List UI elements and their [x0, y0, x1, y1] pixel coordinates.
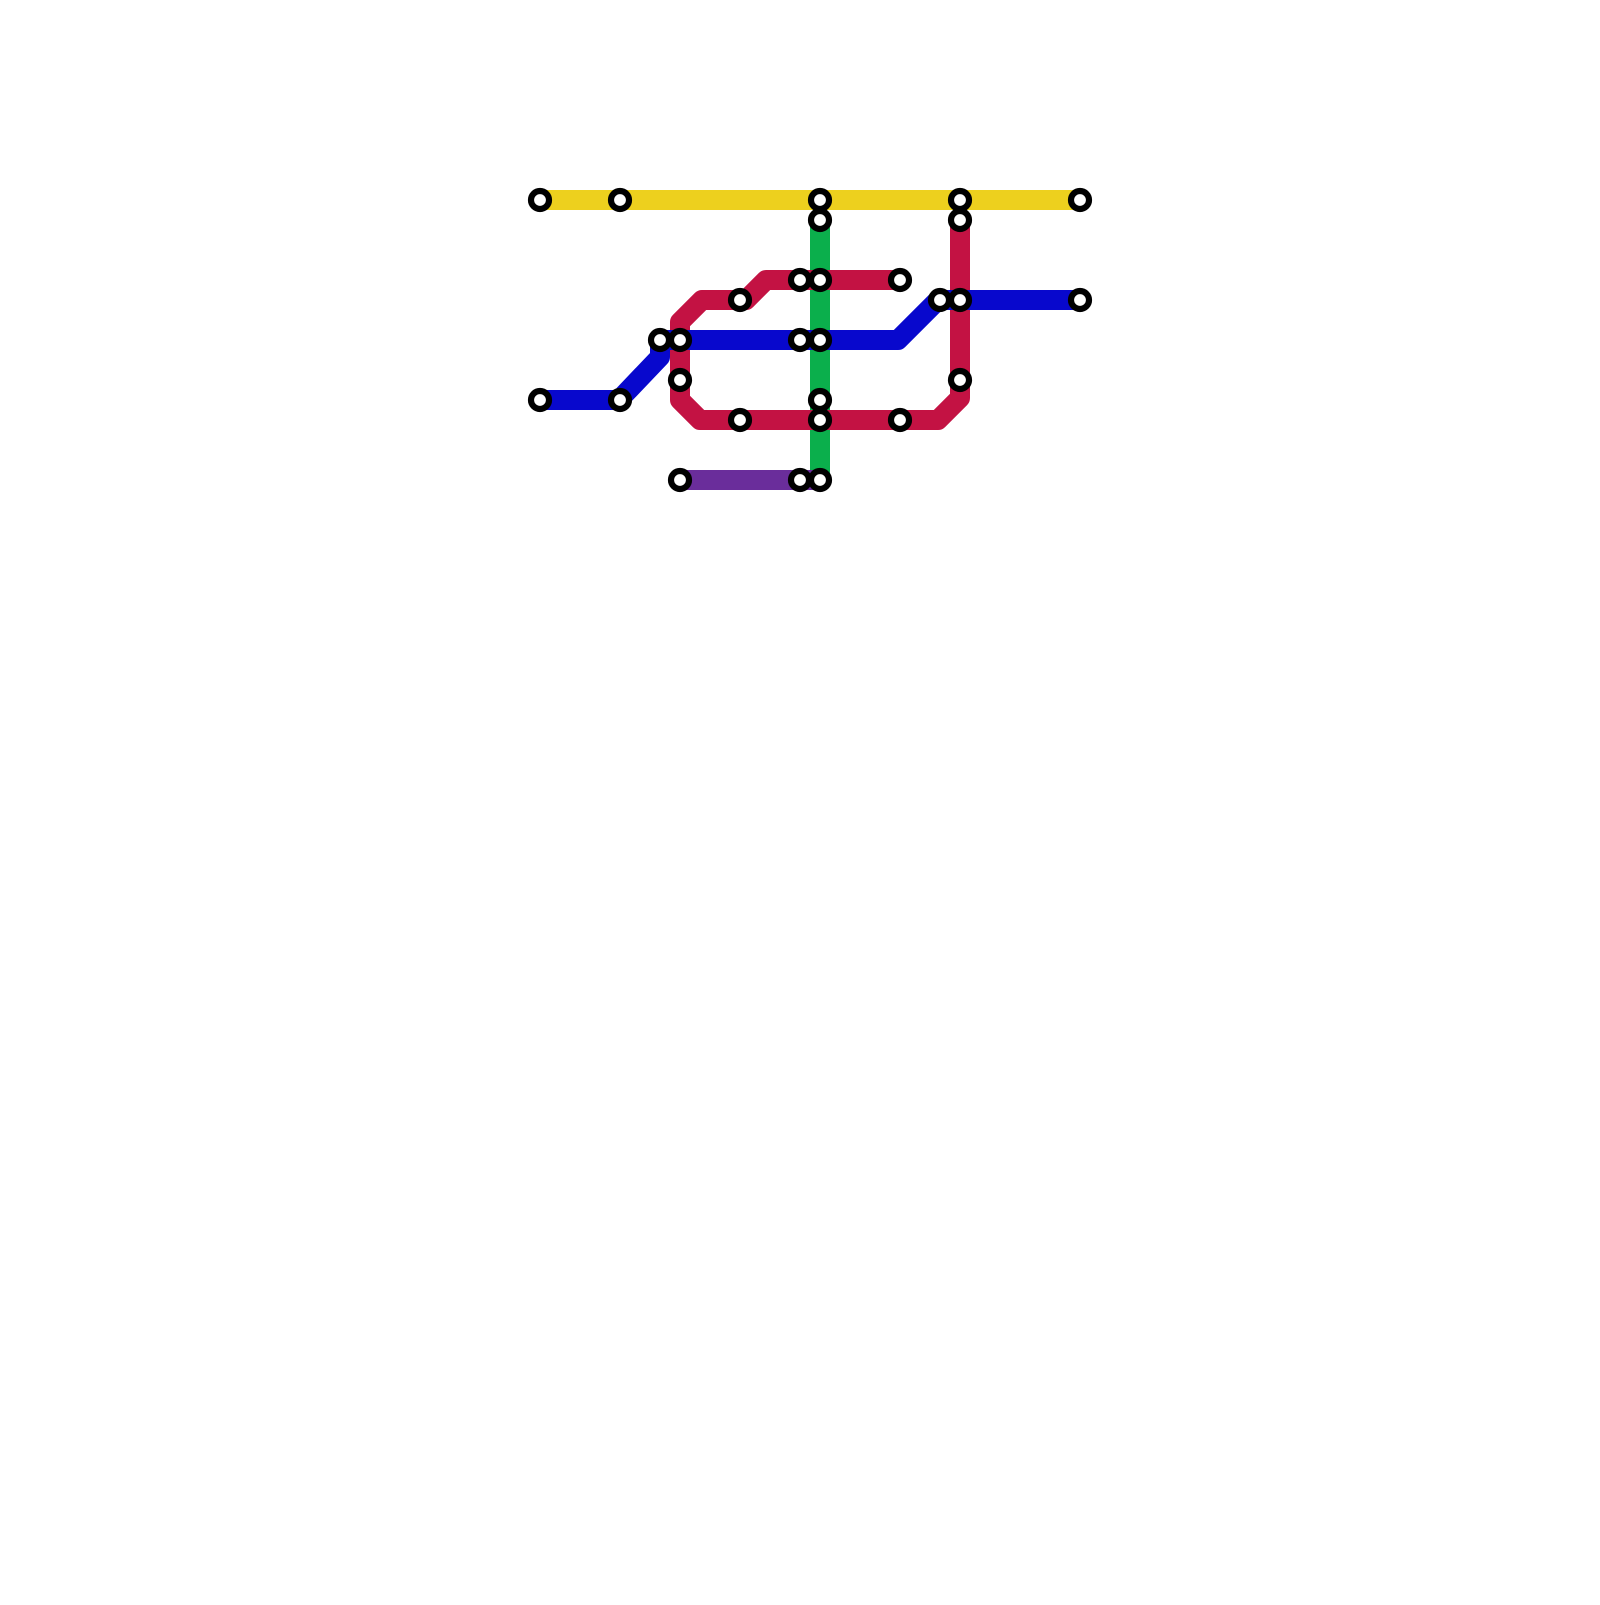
station blue d: [791, 331, 809, 349]
station red a: [791, 271, 809, 289]
station yellow 5: [1071, 191, 1089, 209]
station red east vertical: [951, 371, 969, 389]
purple line: [680, 470, 820, 490]
station purple x green terminal: [811, 471, 829, 489]
station green x red: [811, 271, 829, 289]
station red top: [951, 211, 969, 229]
station green mid: [811, 391, 829, 409]
station red bottom x green: [811, 411, 829, 429]
station yellow 3 / green transfer: [811, 191, 829, 209]
station yellow 2: [611, 191, 629, 209]
station yellow 1: [531, 191, 549, 209]
station purple terminal west: [671, 471, 689, 489]
station green top: [811, 211, 829, 229]
station red terminal east: [891, 271, 909, 289]
station blue terminal east: [1071, 291, 1089, 309]
station red bottom a: [731, 411, 749, 429]
yellow line: [540, 190, 1080, 210]
station blue bend: [931, 291, 949, 309]
station blue e: [611, 391, 629, 409]
station yellow 4 / red transfer: [951, 191, 969, 209]
green line: [810, 220, 830, 480]
station red b: [731, 291, 749, 309]
stations: [531, 191, 1089, 489]
red line: [680, 220, 960, 420]
station red west vertical: [671, 371, 689, 389]
station blue x red vertical: [671, 331, 689, 349]
station blue terminal west: [531, 391, 549, 409]
station red bottom b: [891, 411, 909, 429]
blue line: [540, 300, 1080, 400]
station blue c: [651, 331, 669, 349]
station blue x green: [811, 331, 829, 349]
station purple east: [791, 471, 809, 489]
station blue x red: [951, 291, 969, 309]
